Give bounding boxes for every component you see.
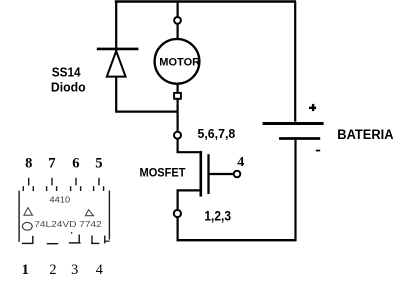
wire right vertical lower <box>294 140 296 241</box>
svg-text:5: 5 <box>95 156 102 172</box>
IC U1 top pin 6 leads <box>71 178 81 191</box>
svg-text:74L24VD 7742: 74L24VD 7742 <box>34 220 102 229</box>
svg-text:MOSFET: MOSFET <box>140 166 187 180</box>
battery plus sign <box>309 104 316 111</box>
svg-text:4: 4 <box>237 155 244 170</box>
wire bottom rail <box>177 239 296 241</box>
IC U1 bottom pin 3 lead <box>69 235 81 243</box>
svg-text:4410: 4410 <box>50 196 71 205</box>
node terminal circle above motor <box>174 17 181 24</box>
svg-text:5,6,7,8: 5,6,7,8 <box>198 126 236 141</box>
motor square terminal <box>174 93 181 99</box>
IC U1 top pin 8 leads <box>23 178 33 191</box>
IC U1 bottom pin 4 lead <box>91 236 105 244</box>
svg-text:BATERIA: BATERIA <box>337 127 393 142</box>
IC U1 bottom pin 1 lead <box>22 236 33 244</box>
wire motor vertical from top rail <box>177 2 179 18</box>
wire motor to square terminal <box>177 84 179 93</box>
wire top rail <box>115 0 296 3</box>
IC U1 body left edge <box>18 191 20 242</box>
wire left branch horizontal to motor line <box>115 110 178 112</box>
wire drain node down <box>177 139 179 153</box>
svg-text:MOTOR: MOTOR <box>159 56 200 68</box>
wire source node down <box>177 217 179 241</box>
svg-text:Diodo: Diodo <box>51 80 86 94</box>
IC U1 body bottom right corner piece <box>105 240 110 242</box>
IC U1 logo triangle right <box>85 210 93 216</box>
IC U1 bottom pin 2 lead <box>47 243 58 245</box>
battery BT1 negative plate <box>279 137 320 140</box>
svg-text:4: 4 <box>96 262 103 278</box>
mosfet Q1 channel bar <box>200 151 203 197</box>
svg-text:2: 2 <box>49 262 56 278</box>
wire square terminal to drain node <box>177 99 179 132</box>
wire node to motor <box>177 24 179 39</box>
IC U1 top pin 7 leads <box>47 178 57 191</box>
node drain terminal circle <box>174 132 181 139</box>
battery BT1 positive plate <box>263 122 324 125</box>
node source terminal circle <box>174 210 181 217</box>
wire drain horizontal into mosfet <box>177 151 202 153</box>
wire left branch vertical lower <box>115 77 117 112</box>
svg-text:7: 7 <box>48 156 55 172</box>
wire source horizontal from mosfet <box>177 189 202 191</box>
IC U1 pin1 index circle <box>22 222 32 230</box>
svg-text:6: 6 <box>72 156 79 172</box>
svg-text:SS14: SS14 <box>52 65 81 79</box>
IC U1 logo triangle left <box>24 208 33 216</box>
motor M1 circle <box>155 39 200 84</box>
node gate terminal circle <box>234 171 241 178</box>
svg-text:1,2,3: 1,2,3 <box>204 209 231 224</box>
svg-text:8: 8 <box>25 156 32 172</box>
wire source vertical <box>177 190 179 210</box>
diode D1 SS14 cathode bar <box>97 48 139 51</box>
wire gate lead <box>209 173 234 175</box>
svg-text:3: 3 <box>71 262 78 278</box>
IC U1 body right edge <box>108 191 110 240</box>
IC U1 top pin 5 leads <box>94 178 104 191</box>
diode D1 SS14 triangle <box>107 51 126 77</box>
IC U1 bottom pin 3 dot <box>71 232 73 234</box>
battery minus sign <box>316 150 320 152</box>
wire right vertical upper <box>294 2 296 122</box>
svg-text:1: 1 <box>22 262 29 278</box>
wire left branch vertical upper <box>115 2 117 52</box>
mosfet Q1 gate bar <box>207 154 209 194</box>
